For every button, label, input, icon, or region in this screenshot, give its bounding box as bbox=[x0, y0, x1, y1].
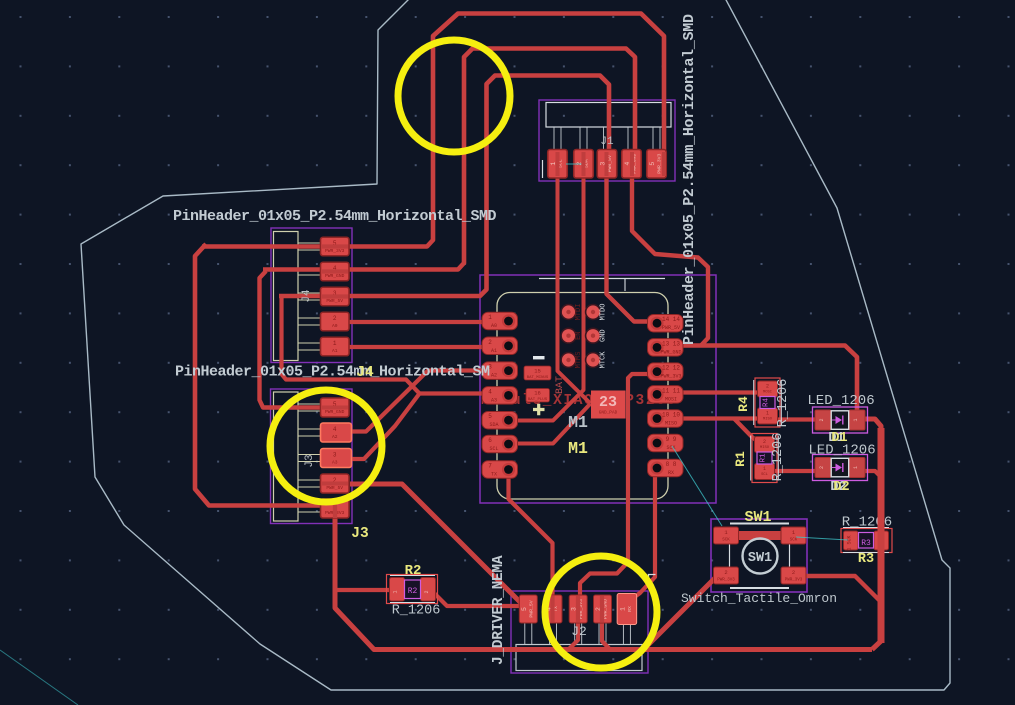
svg-text:23: 23 bbox=[599, 394, 617, 411]
wire net A1 J4.1 to M1.2 bbox=[348, 345, 486, 349]
wire overlay through J3.1 bbox=[333, 500, 337, 518]
svg-text:PWR_3V3: PWR_3V3 bbox=[657, 154, 663, 174]
pin 2 J4 A0 bbox=[321, 312, 350, 331]
wire net MOSI M1.11 to R4.top bbox=[680, 390, 764, 394]
svg-text:J3: J3 bbox=[304, 454, 316, 467]
pin 1 SW1 SCK bbox=[714, 527, 739, 544]
svg-text:J1: J1 bbox=[600, 136, 614, 148]
svg-text:SW1: SW1 bbox=[748, 551, 772, 566]
svg-text:1 SCK: 1 SCK bbox=[847, 535, 853, 550]
svg-text:4: 4 bbox=[624, 162, 631, 166]
pad MTMS M1 test point bbox=[560, 352, 576, 368]
wire net RX M1.8 to J2.1 bbox=[633, 475, 655, 598]
node BAT minus mark bbox=[533, 356, 545, 359]
pin 4 J2 TX bbox=[544, 595, 562, 623]
svg-text:1: 1 bbox=[853, 466, 859, 469]
svg-text:A2: A2 bbox=[491, 373, 497, 379]
svg-text:13 13: 13 13 bbox=[662, 340, 680, 347]
wire R2 left link bbox=[336, 588, 392, 592]
svg-text:PWR_5V: PWR_5V bbox=[662, 325, 680, 331]
wire SW1 bottom-right link to GND vertical bbox=[802, 576, 881, 602]
pin 5 J4 PWR_3V3 bbox=[321, 237, 350, 256]
svg-text:LED_1206: LED_1206 bbox=[808, 443, 875, 459]
svg-text:PinHeader_01x05_P2.54mm_Horizo: PinHeader_01x05_P2.54mm_Horizontal_SMD bbox=[681, 14, 698, 345]
wire net PWR_GND horizontal M1.13 to D1 bbox=[680, 346, 857, 415]
svg-text:6: 6 bbox=[488, 437, 492, 444]
svg-text:4: 4 bbox=[333, 426, 337, 433]
svg-text:4: 4 bbox=[488, 388, 492, 395]
svg-text:LED_1206: LED_1206 bbox=[807, 393, 874, 409]
wire SW1 bottom-left diagonal bbox=[640, 573, 720, 650]
node SW1 button circle bbox=[743, 539, 778, 574]
svg-text:5: 5 bbox=[649, 162, 656, 166]
pad MTDO M1 test point bbox=[585, 304, 601, 320]
wire R1.bottom to D2.left bbox=[770, 469, 820, 473]
svg-text:2: 2 bbox=[724, 569, 727, 576]
pin 3 M1 A2 bbox=[482, 362, 518, 380]
svg-text:SW1: SW1 bbox=[744, 509, 771, 526]
connector J2 body bbox=[511, 591, 648, 673]
wire 5V overlay through J1.3 bbox=[605, 152, 609, 176]
svg-text:R3: R3 bbox=[861, 539, 871, 548]
svg-text:SCK: SCK bbox=[722, 539, 730, 543]
wire net PWR_GND loop2 J4.4 to J1.4 bbox=[263, 49, 635, 270]
LED D1 bbox=[813, 407, 868, 433]
wire 3V3 overlay through J2.3 bbox=[576, 596, 580, 622]
pin 5 J1 PWR_3V3 bbox=[647, 150, 667, 179]
wire net PWR_5V J1.3 down to M1.14 bbox=[607, 172, 651, 322]
svg-text:MOSI: MOSI bbox=[763, 391, 772, 395]
pin 2 J3 PWR_5V bbox=[321, 474, 350, 493]
pin 2 SW1 PWR_3V3 bbox=[781, 567, 806, 584]
wire net PWR_5V loop3 J4.3 to J1.3 bbox=[279, 76, 609, 297]
svg-text:BAT: BAT bbox=[555, 376, 566, 394]
svg-text:GND_PAD: GND_PAD bbox=[599, 411, 618, 416]
node highlight circle bottom bbox=[545, 556, 657, 668]
svg-text:J_DRIVER_NEMA: J_DRIVER_NEMA bbox=[491, 555, 507, 665]
resistor R3 bbox=[841, 528, 892, 553]
svg-text:A1: A1 bbox=[332, 348, 338, 354]
pin 5 J2 PWR_5V bbox=[519, 595, 537, 623]
pin 2 J2 PWR_GND bbox=[594, 595, 612, 623]
pad MTCK M1 test point bbox=[585, 352, 601, 368]
pin 2 J1 SDA bbox=[574, 150, 594, 179]
svg-text:SDA: SDA bbox=[489, 422, 498, 428]
svg-text:SCL: SCL bbox=[489, 446, 498, 452]
connector J1 body bbox=[539, 100, 675, 181]
svg-text:PWR_GND: PWR_GND bbox=[660, 349, 681, 355]
wire D2 right link to GND vertical bbox=[864, 471, 881, 477]
connector J4 body bbox=[271, 228, 352, 363]
svg-text:1: 1 bbox=[619, 607, 626, 611]
pin 13 M1 PWR_GND bbox=[648, 339, 684, 357]
wire overlays through J4 pads bbox=[322, 244, 348, 248]
wire net PWR_5V drop J4.3 jog to A3 line bbox=[282, 298, 420, 394]
LED D2 bbox=[813, 455, 868, 481]
svg-text:MISO: MISO bbox=[763, 418, 773, 422]
pad 16 M1 BAT+ bbox=[526, 389, 550, 403]
svg-text:TX: TX bbox=[491, 472, 497, 478]
svg-text:A0: A0 bbox=[491, 323, 497, 329]
svg-text:1: 1 bbox=[488, 314, 492, 321]
svg-text:16: 16 bbox=[534, 390, 541, 397]
svg-text:2: 2 bbox=[763, 439, 766, 445]
svg-text:R1: R1 bbox=[760, 453, 768, 463]
svg-text:PinHeader_01x05_P2.54mm_Horizo: PinHeader_01x05_P2.54mm_Horizontal_SM bbox=[175, 364, 490, 381]
svg-text:1: 1 bbox=[393, 590, 399, 593]
svg-text:BAT_PLUS: BAT_PLUS bbox=[528, 398, 548, 402]
ratsnest J1 pad1 to pad2 bbox=[566, 163, 584, 165]
svg-text:MTDI: MTDI bbox=[575, 304, 583, 321]
wire net MISO M1.10 to R4.bottom bbox=[680, 416, 762, 420]
pin 4 M1 A3 bbox=[482, 387, 518, 405]
wire net A2 J3.4 to M1.3 bbox=[350, 371, 486, 432]
svg-text:D2: D2 bbox=[833, 480, 849, 495]
svg-text:PWR_GND: PWR_GND bbox=[325, 409, 345, 415]
wire net PWR_3V3 left drop J4.5 to J3.1 bbox=[195, 244, 322, 506]
svg-text:R_1206: R_1206 bbox=[771, 433, 786, 482]
pin 5 M1 SDA bbox=[482, 411, 518, 429]
pin 3 J1 PWR_5V bbox=[597, 150, 617, 179]
pin 11 M1 MOSI bbox=[648, 386, 684, 404]
svg-text:J3: J3 bbox=[351, 526, 368, 542]
svg-text:PinHeader_01x05_P2.54mm_Horizo: PinHeader_01x05_P2.54mm_Horizontal_SMD bbox=[173, 208, 497, 225]
wire J2.2 GND stub bbox=[602, 620, 610, 650]
node BAT plus mark bbox=[533, 404, 545, 416]
pin 4 J4 PWR_GND bbox=[321, 262, 350, 281]
wire SDA overlay through J1.2 bbox=[582, 152, 586, 176]
svg-text:PWR_3V3: PWR_3V3 bbox=[660, 374, 681, 380]
svg-text:PWR_3V3: PWR_3V3 bbox=[717, 579, 735, 583]
pin 9 M1 SCK bbox=[648, 434, 684, 452]
pin 12 M1 PWR_3V3 bbox=[648, 363, 684, 381]
svg-text:11 11: 11 11 bbox=[662, 387, 680, 394]
pin 4 J3 A2 bbox=[321, 423, 352, 442]
wire net PWR_GND left drop J4.4 to J3.5 bbox=[260, 271, 323, 408]
svg-text:A1: A1 bbox=[491, 348, 497, 354]
svg-text:2: 2 bbox=[488, 339, 492, 346]
wire net PWR_3V3 M1.12 down to J2.3 bbox=[580, 374, 648, 598]
svg-text:5: 5 bbox=[488, 413, 492, 420]
pin 1 M1 A0 bbox=[482, 312, 518, 330]
svg-text:MTDO: MTDO bbox=[600, 304, 608, 321]
svg-text:R2: R2 bbox=[405, 563, 422, 579]
svg-text:M1: M1 bbox=[568, 439, 588, 458]
pin 2 M1 A1 bbox=[482, 337, 518, 355]
svg-text:MOSI: MOSI bbox=[665, 396, 677, 402]
pin 1 J4 A1 bbox=[321, 337, 350, 356]
svg-text:M1: M1 bbox=[568, 413, 588, 432]
pin 14 M1 PWR_5V bbox=[648, 314, 684, 332]
pad GND M1 test point bbox=[585, 328, 601, 344]
svg-text:R2: R2 bbox=[408, 587, 418, 596]
wire R4.bottom to D1.left bbox=[772, 417, 820, 421]
svg-text:PWR_5V: PWR_5V bbox=[528, 600, 534, 617]
pin 8 M1 RX bbox=[648, 459, 684, 477]
connector J3 body bbox=[271, 389, 353, 524]
wire GND vertical overlay on R3 bbox=[878, 490, 885, 643]
svg-text:14 14: 14 14 bbox=[662, 316, 680, 323]
pin 3 J4 PWR_5V bbox=[321, 287, 350, 306]
wire net SCL J1.1 to M1.6 bbox=[558, 172, 591, 404]
pin 1 J3 PWR_3V3 bbox=[321, 499, 350, 518]
svg-text:2: 2 bbox=[424, 590, 430, 593]
pin 3 J3 A3 bbox=[321, 449, 352, 468]
svg-text:3: 3 bbox=[333, 452, 337, 459]
wire net PWR_GND D1 right exit to thick vertical bbox=[864, 419, 881, 650]
pin 7 M1 TX bbox=[482, 461, 518, 479]
wire SW1 top pads bridge bbox=[733, 531, 788, 540]
svg-text:MISO: MISO bbox=[665, 421, 677, 427]
svg-text:1: 1 bbox=[763, 466, 766, 472]
pin 4 J1 PWR_GND bbox=[622, 150, 642, 179]
pin 1 SW1 SCK bbox=[781, 527, 806, 544]
svg-text:PWR_5V: PWR_5V bbox=[326, 485, 343, 491]
wire net SDA J1.2 to M1.5 bbox=[514, 172, 584, 421]
wire 3V3 overlay through J1.5 bbox=[662, 152, 666, 176]
svg-text:GND: GND bbox=[600, 329, 608, 342]
svg-text:EN: EN bbox=[575, 331, 583, 339]
svg-text:1: 1 bbox=[333, 340, 337, 347]
resistor R4 bbox=[754, 378, 782, 427]
wire GND overlay through J1.4 bbox=[630, 152, 634, 176]
pin 5 J3 PWR_GND bbox=[321, 398, 350, 417]
svg-text:J4: J4 bbox=[356, 365, 374, 381]
svg-text:R_1206: R_1206 bbox=[392, 604, 441, 619]
svg-text:R4: R4 bbox=[736, 396, 751, 412]
wire SCL overlay through J1.1 bbox=[556, 152, 560, 176]
svg-text:R4: R4 bbox=[763, 398, 771, 408]
svg-text:2: 2 bbox=[766, 384, 769, 390]
pin 6 M1 SCL bbox=[482, 435, 518, 453]
wire overlays through J3 pads 5,2 bbox=[322, 406, 348, 410]
wire net PWR_5V J3.2 to J2.5 bbox=[350, 484, 530, 606]
svg-text:9 9: 9 9 bbox=[666, 436, 677, 443]
pin 1 J2 RX bbox=[617, 594, 637, 625]
svg-text:R3: R3 bbox=[858, 552, 874, 567]
svg-text:5: 5 bbox=[521, 607, 528, 611]
wire GND overlay through J2.2 bbox=[600, 596, 604, 622]
svg-text:1: 1 bbox=[853, 418, 859, 421]
svg-text:A0: A0 bbox=[332, 323, 338, 329]
wire net PWR_GND J3.1 down to bottom bus bbox=[335, 517, 872, 650]
pad 15 M1 BAT- bbox=[524, 366, 551, 380]
pad EN M1 test point bbox=[560, 328, 576, 344]
svg-text:R1: R1 bbox=[733, 451, 748, 467]
pin 1 J1 SCL bbox=[548, 150, 568, 179]
svg-text:MISO: MISO bbox=[760, 446, 770, 450]
svg-text:12 12: 12 12 bbox=[662, 365, 680, 372]
svg-text:10 10: 10 10 bbox=[662, 412, 680, 419]
svg-text:Switch_Tactile_Omron: Switch_Tactile_Omron bbox=[681, 591, 837, 606]
wire thick GND vertical bbox=[878, 428, 885, 643]
svg-text:J2: J2 bbox=[571, 624, 587, 639]
wire TX overlay through J2.4 bbox=[550, 596, 554, 622]
svg-text:SCL: SCL bbox=[761, 473, 769, 477]
pin 3 J2 PWR_3V3 bbox=[569, 595, 587, 623]
svg-text:J4: J4 bbox=[301, 289, 313, 303]
svg-text:A2: A2 bbox=[332, 434, 338, 440]
svg-text:1: 1 bbox=[766, 411, 769, 417]
pin 2 SW1 PWR_3V3 bbox=[714, 567, 739, 584]
svg-text:PWR_3V3: PWR_3V3 bbox=[785, 579, 803, 583]
ratsnest M1.9 to SW1.1 bbox=[672, 446, 722, 526]
pad MTDI M1 test point bbox=[560, 304, 576, 320]
svg-text:A3: A3 bbox=[332, 460, 338, 466]
ratsnest stray left bbox=[0, 650, 78, 705]
svg-text:A3: A3 bbox=[491, 397, 497, 403]
wire net MISO branch to R1.top bbox=[734, 419, 757, 442]
wire net A3 J3.3 to M1.4 bbox=[350, 394, 486, 460]
wire net PWR_GND J1.4 to via x708 bbox=[632, 172, 708, 346]
svg-text:8 8: 8 8 bbox=[666, 461, 677, 468]
svg-text:RX: RX bbox=[627, 606, 633, 612]
svg-text:2: 2 bbox=[819, 466, 825, 469]
wire R2 right to J2.5 bbox=[433, 592, 526, 606]
svg-text:2: 2 bbox=[792, 569, 795, 576]
svg-text:R_1206: R_1206 bbox=[776, 379, 791, 428]
pad 23 M1 thermal bbox=[591, 391, 626, 419]
svg-text:2: 2 bbox=[333, 315, 337, 322]
pin 10 M1 MISO bbox=[648, 410, 684, 428]
svg-text:MTCK: MTCK bbox=[600, 351, 608, 369]
resistor R1 bbox=[751, 434, 779, 483]
wire net A0 J4.2 to M1.1 bbox=[348, 320, 486, 324]
ratsnest SW1.1 to R3 bbox=[796, 537, 848, 540]
svg-text:PWR_GND: PWR_GND bbox=[325, 273, 345, 279]
node J2 pin1 marker bbox=[649, 575, 656, 583]
module M1 body bbox=[480, 275, 716, 503]
svg-text:PWR_5V: PWR_5V bbox=[326, 298, 343, 304]
svg-text:BAT_MINUS: BAT_MINUS bbox=[527, 376, 549, 380]
switch SW1 body bbox=[711, 519, 807, 592]
svg-text:7: 7 bbox=[488, 463, 492, 470]
wire J2.3 stub down bbox=[569, 620, 578, 649]
wire net TX M1.7 to J2.4 bbox=[509, 477, 553, 598]
svg-text:PWR_3V3: PWR_3V3 bbox=[325, 248, 345, 254]
svg-text:MTMS: MTMS bbox=[575, 352, 583, 369]
svg-text:R_1206: R_1206 bbox=[842, 515, 892, 531]
node highlight circle top bbox=[398, 40, 510, 152]
svg-text:2: 2 bbox=[819, 418, 825, 421]
wire net PWR_3V3 loop1 J4.5 to J1.5 bbox=[202, 14, 664, 247]
svg-text:SCK: SCK bbox=[790, 539, 798, 543]
resistor R2 bbox=[387, 575, 438, 604]
svg-text:RX: RX bbox=[668, 470, 674, 476]
node highlight circle left bbox=[270, 390, 382, 502]
svg-text:15: 15 bbox=[534, 368, 541, 375]
